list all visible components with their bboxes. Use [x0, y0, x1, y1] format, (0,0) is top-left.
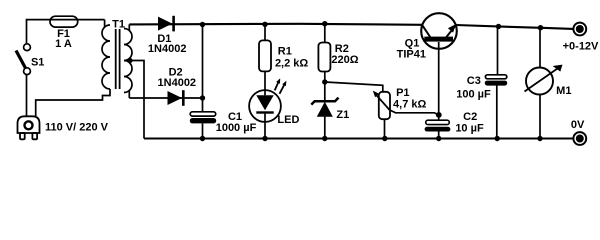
- svg-text:C3: C3: [467, 75, 481, 87]
- svg-text:R1: R1: [278, 46, 292, 58]
- svg-text:100 µF: 100 µF: [456, 89, 491, 101]
- svg-text:0V: 0V: [571, 119, 585, 131]
- svg-text:S1: S1: [31, 56, 44, 68]
- svg-text:T1: T1: [112, 18, 125, 30]
- svg-text:P1: P1: [396, 87, 409, 99]
- svg-text:1N4002: 1N4002: [158, 77, 197, 89]
- svg-text:+0-12V: +0-12V: [563, 41, 599, 53]
- svg-text:110 V/ 220 V: 110 V/ 220 V: [45, 122, 109, 134]
- svg-text:TIP41: TIP41: [397, 48, 426, 60]
- svg-text:10 µF: 10 µF: [455, 122, 484, 134]
- svg-text:1N4002: 1N4002: [148, 43, 187, 55]
- svg-text:LED: LED: [277, 114, 299, 126]
- svg-text:M1: M1: [556, 85, 571, 97]
- svg-text:220Ω: 220Ω: [331, 54, 358, 66]
- svg-text:1000 µF: 1000 µF: [216, 122, 257, 134]
- svg-text:4,7 kΩ: 4,7 kΩ: [393, 99, 426, 111]
- svg-text:1 A: 1 A: [55, 38, 72, 50]
- svg-text:Z1: Z1: [336, 109, 349, 121]
- svg-text:C2: C2: [463, 111, 477, 123]
- svg-text:2,2 kΩ: 2,2 kΩ: [275, 57, 308, 69]
